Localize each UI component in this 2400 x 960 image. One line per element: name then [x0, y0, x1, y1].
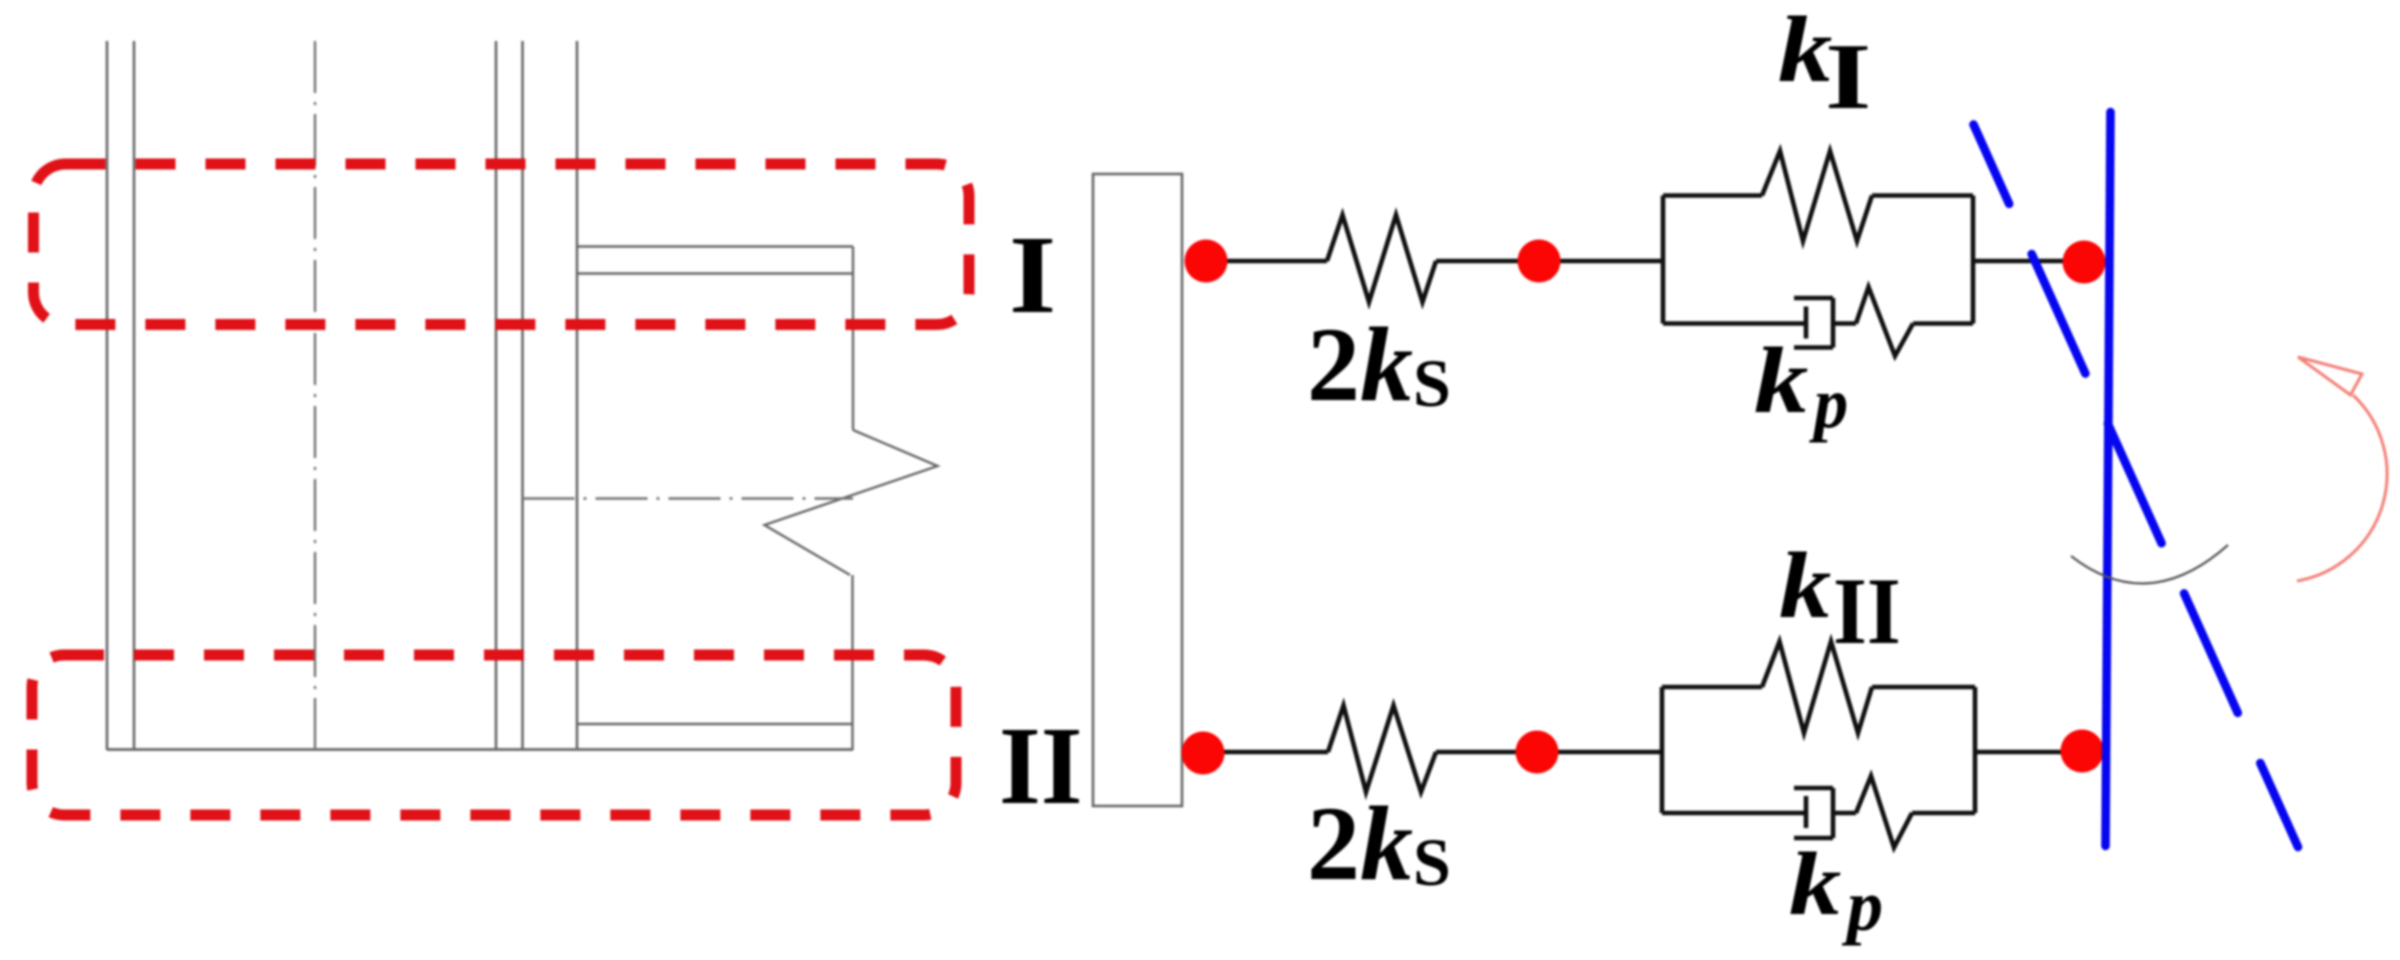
wire I spring to box corner — [1913, 321, 1973, 326]
column flange line left — [106, 41, 109, 750]
initial wall line (blue dashed) — [1974, 125, 2299, 848]
svg-text:k: k — [1754, 329, 1808, 433]
svg-text:I: I — [1825, 25, 1871, 129]
rotation angle arc (black) — [2071, 545, 2228, 583]
spring kII — [1762, 642, 1872, 734]
wire II-3 — [1975, 750, 2090, 755]
node II-a — [1182, 732, 1225, 775]
wire I-2 — [1436, 259, 1663, 264]
box II right edge — [1973, 687, 1978, 813]
rotation arrow arc (pink) — [2297, 395, 2387, 581]
beam right edge lower — [851, 575, 853, 750]
slider II bracket — [1794, 788, 1833, 838]
spring kp row II — [1856, 776, 1912, 848]
box II top edge right — [1872, 685, 1975, 690]
box I top edge left — [1663, 193, 1762, 198]
beam break zigzag — [765, 430, 938, 575]
column centerline (dash-dot) — [314, 41, 316, 748]
wire II slider to spring — [1833, 811, 1856, 816]
spring kI — [1762, 151, 1872, 241]
wire II-1 — [1203, 750, 1328, 755]
slider I plate — [1804, 307, 1809, 339]
box II bottom edge left — [1662, 811, 1806, 816]
wire I slider to spring — [1833, 321, 1856, 326]
svg-text:I: I — [1009, 214, 1056, 337]
beam right edge upper — [852, 247, 854, 431]
box I top edge right — [1872, 193, 1973, 198]
box I left edge — [1661, 196, 1666, 324]
beam centerline (dash-dot) — [523, 497, 854, 499]
rotation arrow head (pink) — [2298, 357, 2362, 395]
beam top flange upper line — [577, 245, 853, 247]
wall line b — [521, 41, 524, 750]
wire I-3 — [1973, 259, 2090, 264]
svg-text:p: p — [1808, 363, 1848, 443]
node II-c — [2061, 730, 2104, 773]
node I-a — [1185, 240, 1228, 283]
box I bottom edge left — [1663, 321, 1806, 326]
region II dashed box — [32, 655, 956, 815]
svg-text:II: II — [999, 705, 1083, 828]
svg-text:k: k — [1789, 835, 1841, 934]
base line — [107, 748, 853, 751]
region I dashed box — [34, 164, 970, 325]
box II top edge left — [1662, 685, 1762, 690]
slider II plate — [1804, 796, 1809, 828]
slider I bracket — [1794, 298, 1833, 348]
node II-b — [1516, 731, 1559, 774]
column flange line right — [133, 41, 136, 750]
svg-text:k: k — [1779, 534, 1831, 638]
svg-text:II: II — [1833, 558, 1901, 664]
box II left edge — [1660, 687, 1665, 813]
beam top flange lower line — [577, 272, 853, 274]
svg-text:p: p — [1841, 865, 1883, 946]
node I-b — [1518, 240, 1561, 283]
node I-c — [2063, 241, 2106, 284]
deformed wall line (blue solid) — [2106, 112, 2111, 846]
wall line a — [495, 41, 498, 750]
wall line c / beam end plate — [576, 41, 579, 750]
wire II spring to box corner — [1912, 811, 1975, 816]
wire II-2 — [1436, 750, 1662, 755]
wire I-1 — [1206, 259, 1327, 264]
spring 2kS row I — [1327, 215, 1436, 302]
beam bottom flange upper line — [577, 723, 853, 725]
spring kp row I — [1856, 287, 1913, 356]
spring 2kS row II — [1328, 706, 1436, 793]
box I right edge — [1971, 196, 1976, 324]
wall plate — [1093, 174, 1182, 806]
